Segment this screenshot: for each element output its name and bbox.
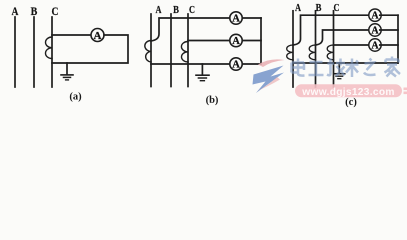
svg-text:B: B	[173, 5, 179, 16]
svg-text:www.dgjs123.com: www.dgjs123.com	[301, 87, 394, 98]
svg-text:B: B	[31, 6, 38, 18]
svg-text:A: A	[12, 6, 19, 18]
svg-text:A: A	[94, 30, 102, 42]
svg-text:(a): (a)	[69, 92, 82, 103]
svg-text:B: B	[316, 3, 322, 14]
svg-text:A: A	[232, 36, 240, 47]
svg-text:C: C	[52, 6, 59, 18]
svg-text:A: A	[232, 60, 240, 71]
svg-text:C: C	[334, 3, 340, 14]
svg-text:A: A	[371, 40, 379, 51]
svg-text:(c): (c)	[345, 97, 357, 108]
svg-text:A: A	[156, 5, 163, 16]
svg-text:A: A	[371, 25, 379, 36]
svg-text:A: A	[295, 3, 301, 14]
svg-text:C: C	[189, 5, 195, 16]
svg-text:(b): (b)	[206, 95, 219, 106]
svg-text:A: A	[371, 11, 379, 22]
svg-text:A: A	[232, 14, 240, 25]
